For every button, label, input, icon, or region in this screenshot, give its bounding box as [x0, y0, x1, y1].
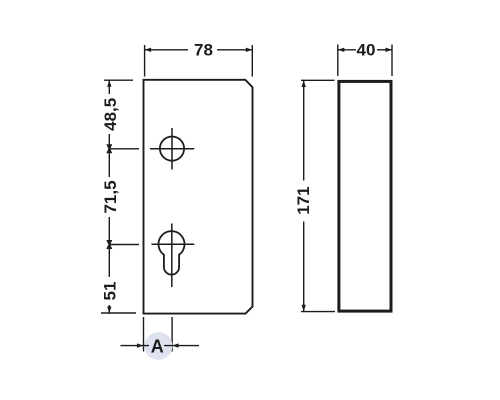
dimension A arrow left	[137, 343, 144, 347]
keyhole horizontal centerline	[151, 243, 194, 245]
svg-text:48,5: 48,5	[101, 98, 120, 131]
front view plate outline	[144, 80, 253, 314]
dimension A highlight circle	[145, 332, 173, 360]
dimension A extension line right	[171, 317, 173, 352]
dimension A leader left	[121, 345, 150, 347]
dimension 40 arrow left	[338, 48, 345, 52]
left chain tick at hole H1 center	[109, 148, 139, 150]
svg-text:78: 78	[194, 40, 213, 59]
left dimension chain vertical line segments	[108, 80, 110, 313]
left chain double arrow at keyhole	[106, 240, 112, 247]
svg-text:171: 171	[294, 186, 313, 214]
left chain tick at keyhole center	[109, 244, 139, 246]
euro profile keyhole	[159, 231, 185, 274]
dimension 171 arrow up	[302, 81, 306, 88]
left chain tick at plate bottom	[101, 312, 136, 314]
svg-text:51: 51	[101, 282, 120, 301]
dimension 78 extension line right	[251, 45, 253, 77]
hole H1 circle	[160, 137, 184, 161]
dimension 40 arrow right	[386, 48, 393, 52]
left chain arrow up at top	[107, 80, 111, 87]
dimension 40 extension line right	[391, 45, 393, 77]
hole H1 horizontal centerline	[150, 148, 194, 150]
dimension 171 extension line top	[301, 79, 335, 81]
dimension 171 extension line bottom	[301, 311, 335, 313]
dimension 40 line right segment	[377, 49, 392, 51]
dimension 171 arrow down	[302, 305, 306, 312]
svg-text:71,5: 71,5	[101, 180, 120, 213]
dimension 78 line right segment	[217, 49, 252, 51]
dimension 78 extension line left	[144, 45, 146, 77]
svg-text:40: 40	[357, 40, 376, 59]
side view box	[339, 81, 391, 311]
keyhole vertical centerline	[171, 224, 173, 288]
svg-text:A: A	[151, 336, 164, 356]
left chain tick at plate top	[104, 79, 133, 81]
dimension 78 arrow right	[246, 48, 253, 52]
dimension A leader right	[164, 345, 199, 347]
dimension 78 line left segment	[145, 49, 188, 51]
hole H1 vertical centerline	[171, 128, 173, 170]
dimension 171 line segments	[303, 81, 305, 312]
dimension A extension line left	[143, 317, 145, 352]
dimension A arrow right	[172, 343, 179, 347]
left chain double arrow at hole H1	[106, 144, 112, 151]
dimension 78 arrow left	[145, 48, 152, 52]
dimension 40 line left segment	[338, 49, 356, 51]
dimension 40 extension line left	[337, 45, 339, 77]
left chain arrow down at bottom	[107, 307, 111, 314]
